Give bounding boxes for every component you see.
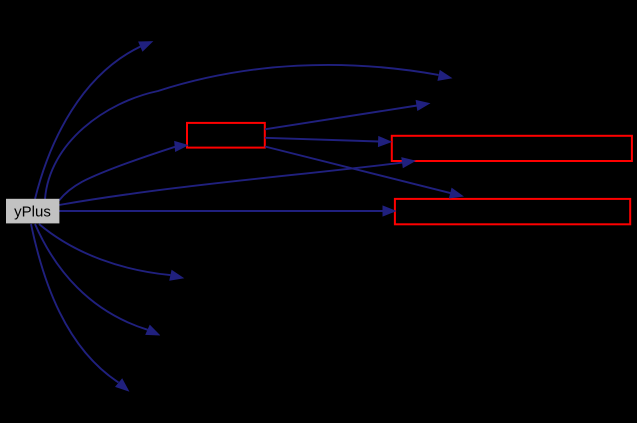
svg-text:yPlus: yPlus	[14, 204, 51, 221]
